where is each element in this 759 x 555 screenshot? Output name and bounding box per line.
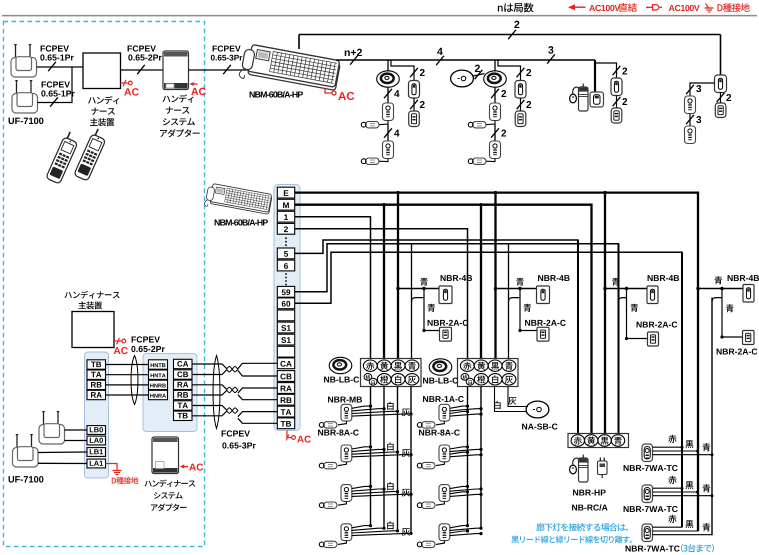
console riser to top bus: [298, 35, 300, 50]
legend D-type ground icon: [706, 4, 709, 8]
wire black: [653, 530, 698, 532]
wire drop to NBR-2A-C (blue): [424, 289, 440, 331]
label gray: [402, 489, 410, 497]
fan wire: [352, 411, 398, 413]
wall handset unit: [409, 81, 420, 99]
label NB-LB-C mid: [423, 377, 458, 383]
AC arrow for system adapter: [192, 83, 198, 85]
label NBR-4B: [538, 275, 570, 281]
dashed system boundary box: [4, 22, 205, 547]
wire UF-7100 upper to main unit: [37, 66, 84, 68]
wire line 59: [295, 244, 619, 435]
wires strip2 to main strip (3Pr) with twists: [192, 364, 227, 368]
AC plug for main unit: [121, 82, 129, 84]
terminal strip lower-left 1: [85, 352, 109, 478]
wire down: [387, 124, 389, 141]
top bus right corner down: [720, 35, 722, 76]
nurse call console NBM-60B/A-HP (second): [204, 183, 272, 218]
wire color labels: [668, 435, 676, 443]
ellipsis dots in strip: [285, 237, 287, 239]
fan wire: [352, 449, 384, 451]
verticals below block2: [467, 387, 469, 527]
fan wire c2: [450, 528, 481, 530]
blue label: [420, 278, 428, 286]
corridor lamp NB-LB-C (left): [329, 357, 352, 373]
wire red: [653, 526, 683, 528]
wire red: [653, 487, 683, 489]
label NBR-2A-C: [428, 320, 469, 326]
legend text AC100V: [669, 5, 700, 11]
wire to plug: [338, 541, 346, 545]
room station (combo) c2: [439, 485, 450, 502]
wire E bus: [295, 193, 698, 532]
wire black: [653, 450, 698, 452]
main terminal strip background: [274, 185, 300, 431]
room station (combo): [341, 445, 352, 462]
blue column feed wires from line59 level: [411, 244, 413, 360]
fan wire c2: [450, 449, 481, 451]
AC arrow lower adapter: [182, 466, 188, 468]
wire black: [653, 491, 698, 493]
cordless handset charger UF-7100 (upper): [15, 44, 17, 59]
wall speaker unit: [409, 111, 420, 127]
label FCPEV 0.65-2Pr lower: [132, 336, 160, 342]
handy nurse system adapter (top): [163, 51, 189, 90]
wall speaker unit: [611, 108, 622, 123]
wire M bus: [295, 205, 592, 435]
corridor lamp NB-LB-C (mid): [429, 359, 452, 375]
wire to plug: [338, 421, 346, 425]
label handy nurse main unit (lower): [65, 291, 120, 299]
room station (combo) c2: [439, 445, 450, 462]
wire line 1: [295, 217, 371, 360]
fan wire c2: [450, 409, 481, 411]
verticals below block1: [370, 387, 372, 527]
corridor lamp A (dome): [377, 71, 400, 87]
fan wire c2: [450, 494, 481, 496]
label FCPEV 0.65-1Pr (upper): [41, 45, 69, 51]
AC for console: [325, 88, 332, 93]
fan wire c2: [450, 534, 481, 536]
plug NBR-8A-C c2: [422, 541, 436, 547]
combo station: [685, 96, 696, 114]
main bus from console (n+2): [336, 59, 595, 61]
wire to bedside plug: [486, 121, 496, 125]
label system adapter lower: [145, 479, 196, 487]
wire to plug c2: [436, 541, 444, 545]
toilet call station NBR-7WA-TC: [642, 485, 653, 503]
bath call NA-SB-C oval: [526, 401, 549, 418]
fan wire c2: [450, 452, 468, 454]
fan wire c2: [450, 455, 481, 457]
cluster1 room chains: [328, 397, 362, 403]
corridor lamp NBR-4B: [439, 286, 452, 304]
fan wire c2: [450, 414, 481, 416]
corridor lamp B drop: [494, 60, 496, 72]
wire to bedside plug: [379, 121, 389, 125]
label gray: [402, 409, 410, 417]
top bus line (2-wire): [299, 34, 721, 36]
wire down: [413, 98, 415, 111]
label NB-RC/A: [572, 504, 608, 510]
legend text D-type grounding: [717, 3, 749, 12]
fan wire: [352, 455, 411, 457]
room sub station 2 (combo): [383, 141, 394, 159]
plug NBR-8A-C: [324, 422, 338, 428]
bus corner down to pendant station: [594, 60, 596, 93]
system adapter (lower): [152, 437, 179, 474]
toilet call station NBR-7WA-TC: [642, 444, 653, 462]
label white: [387, 482, 393, 490]
wall handset unit: [515, 81, 526, 99]
branch wire: [391, 60, 414, 81]
cordless handset charger UF-7100 (lower): [16, 80, 18, 95]
wire to bedside plug 2: [486, 159, 496, 162]
twisted cable lens symbol: [131, 356, 138, 405]
plug NBR-8A-C: [324, 541, 338, 547]
corridor lamp A drop: [387, 60, 389, 72]
room lamp NBR-2A-C: [537, 327, 549, 341]
pendant handset set: [570, 94, 577, 103]
fan wire: [352, 494, 411, 496]
blue label: [516, 278, 524, 286]
label NBR-7WA-TC: [626, 545, 680, 551]
branch left from right unit: [690, 83, 715, 96]
blue lead vertical right column: [711, 298, 713, 536]
cluster 3 NBR-4B/2A-C: [605, 288, 647, 290]
fan wire c2: [450, 489, 481, 491]
bedside plug: [473, 122, 487, 128]
branch wire: [498, 60, 521, 81]
fan wire: [352, 492, 398, 494]
label gray: [402, 449, 410, 457]
fan wire c2: [450, 412, 468, 414]
label NBR-HP: [573, 490, 606, 496]
wire blue: [653, 495, 713, 497]
toilet call station NBR-7WA-TC: [642, 524, 653, 542]
wire drop to NBR-2A-C (blue): [520, 289, 537, 331]
fan wire: [352, 489, 384, 491]
blue bridge cap: [509, 298, 521, 302]
fan wire: [352, 531, 398, 533]
legend: n is number of stations: [498, 3, 534, 13]
plug NBR-8A-C: [324, 502, 338, 508]
room station (combo): [341, 404, 352, 421]
label NA-SB-C: [522, 423, 557, 429]
label white: [387, 402, 393, 410]
label NBR-8A-C c1: [318, 429, 359, 435]
label white: [387, 442, 393, 450]
fan wire c2: [450, 486, 468, 488]
cable lens around 3Pr wires: [213, 356, 220, 429]
label handy nurse main unit: [88, 96, 119, 104]
wire to plug: [338, 462, 346, 466]
wire down: [494, 124, 496, 141]
plug NBR-8A-C: [324, 462, 338, 468]
wire red: [653, 446, 683, 448]
fan wire c2: [450, 492, 468, 494]
right wall handset unit: [715, 75, 727, 93]
label UF-7100 lower: [9, 476, 44, 483]
room lamp NBR-2A-C: [440, 327, 452, 341]
room sub station 2 (combo): [490, 141, 501, 159]
wire E branch verticals: [397, 193, 399, 360]
corridor lamp B (dome): [484, 71, 507, 87]
fan wire: [352, 452, 398, 454]
wires strip1 to strip2 (2Pr): [106, 364, 149, 366]
room station (combo): [341, 524, 352, 541]
color terminal block 2: [458, 359, 519, 387]
wall handset unit: [611, 78, 622, 96]
room sub station (combo): [383, 103, 394, 121]
cordless handset 1: [46, 130, 81, 184]
wire to bedside plug 2: [379, 159, 389, 162]
room station (combo) c2: [439, 404, 450, 421]
fan wire: [352, 447, 371, 449]
wire below right unit: [720, 93, 722, 104]
fan wire: [352, 486, 371, 488]
bedside plug 2: [473, 158, 487, 164]
wire to plug c2: [436, 501, 444, 505]
label NBM-60B/A-HP (second): [215, 219, 268, 226]
wire to plug c2: [436, 421, 444, 425]
plug NBR-8A-C c2: [422, 422, 436, 428]
wire color labels: [668, 515, 676, 523]
cluster right NBR-4B/2A-C: [698, 288, 743, 290]
white/gray wires to NA-SB-C: [495, 387, 527, 412]
wire down: [520, 98, 522, 111]
handy nurse main unit box (lower): [72, 312, 114, 348]
bedside plug: [366, 122, 380, 128]
wire line 2: [295, 229, 468, 360]
wire oval to dome B with slash 2: [474, 74, 485, 77]
label white: [387, 521, 393, 529]
label NB-LB-C left: [324, 376, 359, 382]
legend text AC100V chokketsu: [589, 5, 620, 11]
wire to plug: [338, 501, 346, 505]
room station (combo): [341, 485, 352, 502]
ground D-type (red): [106, 464, 118, 466]
wire dome chain: [494, 87, 496, 103]
legend AC100V plug icon: [646, 6, 652, 8]
label NBR-7WA-TC: [624, 465, 678, 471]
wires to LB0/LA0: [65, 429, 88, 431]
UF-7100 charger lower (lower section): [16, 434, 18, 449]
ceiling oval lamp: [451, 70, 474, 87]
label NBR-8A-C c2: [419, 429, 460, 435]
label FCPEV 0.65-3Pr lower: [222, 430, 250, 436]
blue bridge cap: [412, 298, 425, 302]
fan wire c2: [450, 447, 468, 449]
room sub station (combo): [490, 103, 501, 121]
room station (combo) c2: [439, 524, 450, 541]
fan wire: [352, 409, 384, 411]
fan wire: [352, 414, 411, 416]
fan wire: [352, 406, 371, 408]
pendant station box: [590, 92, 604, 107]
terminal strip lower-left 2 (HN): [143, 354, 197, 432]
AC plug lower main unit: [114, 340, 122, 342]
label FCPEV 0.65-1Pr (lower): [42, 81, 70, 87]
label handy nurse system adapter: [163, 94, 194, 102]
label UF-7100: [9, 118, 44, 125]
label NBR-4B: [441, 275, 473, 281]
top separator line: [2, 15, 757, 17]
label FCPEV 0.65-3Pr: [213, 45, 241, 51]
wire line 60: [295, 252, 682, 527]
label NBR-7WA-TC: [624, 506, 678, 512]
plug NBR-8A-C c2: [422, 502, 436, 508]
wire color labels: [668, 476, 676, 484]
handy nurse main unit box: [83, 53, 121, 89]
fan wire c2: [450, 526, 468, 528]
corridor lamp NBR-4B: [537, 286, 550, 304]
wall speaker unit: [515, 111, 526, 127]
bedside plug 2: [366, 158, 380, 164]
right wall speaker unit: [715, 103, 726, 118]
wire NBR-4B tap: [398, 288, 439, 290]
color terminal block 1 (aka-ki-kuro-ao / momo-dai-shiro-hai): [361, 359, 422, 387]
wire main unit to system adapter: [121, 69, 164, 71]
plug NBR-8A-C c2: [422, 462, 436, 468]
cluster2 room chains: [423, 396, 464, 402]
single-row color block (cluster3): [568, 434, 629, 448]
label gray: [402, 528, 410, 536]
wire NBR-4B tap: [496, 288, 537, 290]
wire dome chain: [387, 87, 389, 103]
wire UF-7100 lower to main unit: [38, 67, 73, 102]
branch to wall pair right of pendant: [595, 63, 617, 78]
pendant set NBR-HP / NB-RC/A: [570, 465, 577, 474]
fan wire: [352, 533, 411, 535]
wire blue: [653, 454, 713, 456]
nurse call master console NBM-60B/A-HP (top): [239, 43, 341, 95]
label NBM-60B/A-HP (top): [250, 91, 303, 98]
fan wire c2: [450, 406, 468, 408]
legend AC100V direct arrow: [570, 6, 586, 8]
terminal cells: [277, 187, 294, 198]
wire blue: [653, 534, 713, 536]
AC plug below strip (red): [287, 431, 291, 438]
wires to LB1/LA1: [38, 451, 87, 454]
fan wire c2: [450, 531, 468, 533]
wire M branch verticals: [383, 205, 385, 360]
wire to plug c2: [436, 462, 444, 466]
note about corridor lamp (blue): [536, 523, 628, 531]
cordless handset 2: [74, 127, 109, 181]
wire adapter to NBM console: [189, 69, 251, 71]
label FCPEV 0.65-2Pr: [128, 45, 156, 51]
fan wire: [352, 528, 384, 530]
UF-7100 charger upper (lower section): [43, 411, 45, 426]
combo station 2: [685, 126, 696, 144]
thicker vertical reinforcement (cluster3/bottom feeds): [577, 240, 579, 435]
fan wire: [352, 526, 371, 528]
wire line 5: [295, 240, 578, 435]
label NBR-2A-C: [525, 320, 566, 326]
